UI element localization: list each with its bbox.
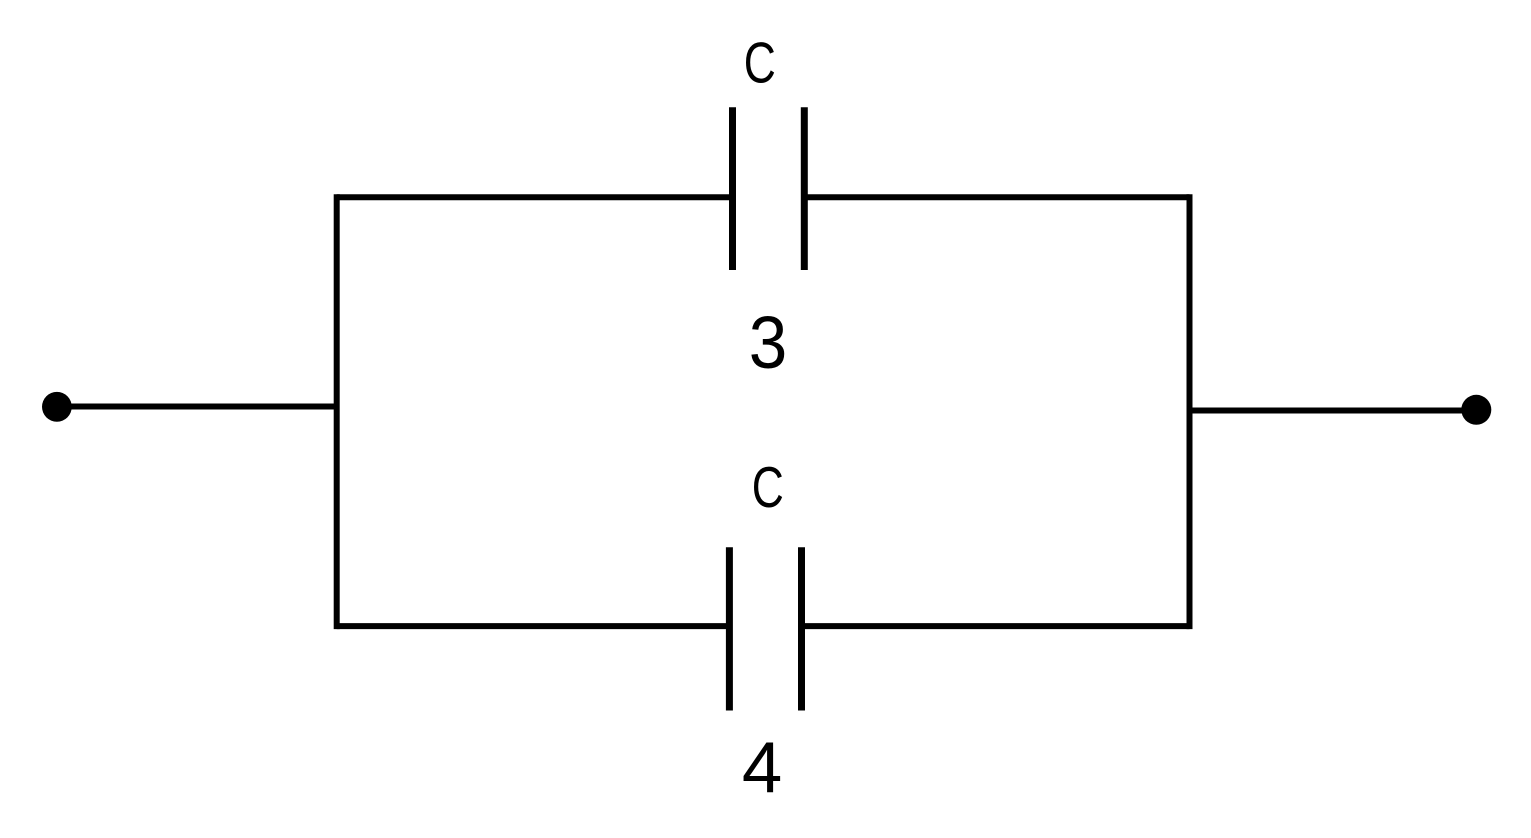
- wire: loop left vertical side: [334, 194, 340, 629]
- wire: bottom side, right segment from capacitor C4: [802, 623, 1190, 629]
- wire: loop right vertical side: [1187, 194, 1193, 629]
- node: right terminal dot: [1461, 395, 1491, 425]
- wire: top side, left segment to capacitor C3: [337, 194, 733, 200]
- wire: left lead from left terminal to loop left side: [57, 404, 337, 410]
- svg-text:C: C: [752, 454, 784, 519]
- capacitor C4 (bottom branch): [729, 547, 801, 710]
- svg-text:C: C: [744, 30, 776, 95]
- capacitor C3 (top branch): [733, 107, 805, 270]
- wire: top side, right segment from capacitor C3: [804, 194, 1189, 200]
- wire: bottom side, left segment to capacitor C4: [337, 623, 730, 629]
- node: left terminal dot: [42, 392, 72, 422]
- wire: right lead from loop right side to right terminal: [1190, 408, 1477, 414]
- svg-text:4: 4: [742, 727, 782, 808]
- svg-text:3: 3: [749, 302, 788, 385]
